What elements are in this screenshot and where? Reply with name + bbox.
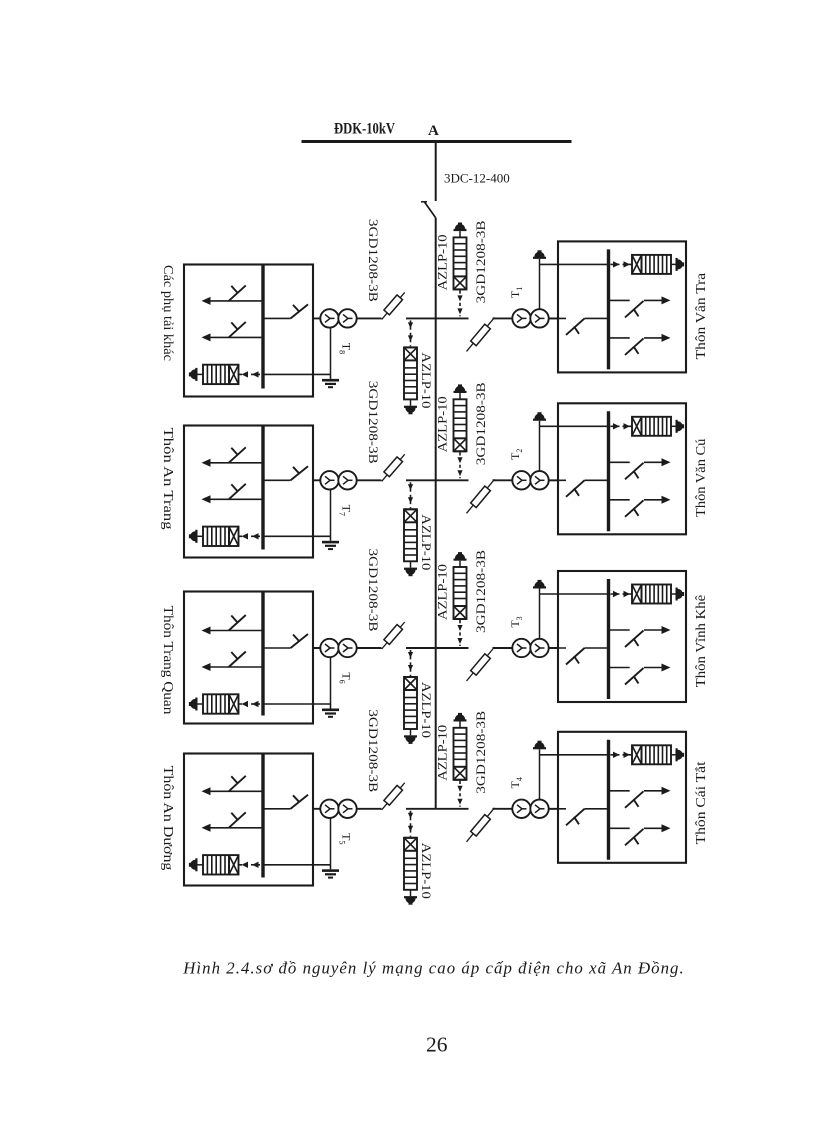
label 3GD1208-3B right 4 (473, 710, 488, 793)
feeder wire main segment (435, 218, 437, 809)
svg-text:Thôn Văn Cú: Thôn Văn Cú (693, 438, 708, 517)
right box 3 internal busbar (607, 579, 610, 699)
svg-text:AZLP-10: AZLP-10 (419, 682, 434, 738)
wire left branch 2 (313, 479, 436, 481)
ground riser of T3 (540, 589, 609, 649)
right box 2 arrester row (611, 417, 685, 436)
label DDK-10kV (334, 121, 396, 138)
fuse right 3 (3GD1208-3B) (467, 647, 495, 681)
transformer T3 (512, 639, 548, 657)
ground of T6 (322, 704, 339, 718)
transformer T7 (320, 471, 356, 489)
label AZLP-10 for FV1 (435, 234, 450, 290)
fuse left 3 (3GD1208-3B) (382, 622, 405, 649)
wire right branch 3 (436, 647, 558, 649)
label T6 (338, 672, 354, 683)
left box 3 arrester row (189, 694, 261, 713)
right box 1 (Thôn Vân Tra) (558, 241, 686, 372)
left box 2 feeder switch upper (202, 447, 264, 467)
left box 1 internal busbar (261, 265, 264, 389)
svg-text:AZLP-10: AZLP-10 (419, 843, 434, 899)
svg-text:3GD1208-3B: 3GD1208-3B (473, 550, 488, 633)
arrester FV4 (AZLP-10) above right branch 4 (454, 713, 467, 807)
label T1 (508, 287, 524, 298)
ground of T7 (322, 536, 339, 550)
right box 1 incoming switch (549, 318, 609, 335)
svg-text:AZLP-10: AZLP-10 (435, 564, 450, 620)
left box 1 (Các phụ tải khác) (184, 265, 313, 397)
fuse right 1 (3GD1208-3B) (467, 317, 495, 351)
left box 4 arrester row (189, 855, 261, 874)
busbar DDK-10kV (302, 140, 572, 143)
fuse right 4 (3GD1208-3B) (467, 808, 495, 842)
right box 2 feeder switch lower (609, 496, 671, 517)
label T7 (338, 505, 354, 516)
fuse left 1 (3GD1208-3B) (382, 292, 405, 319)
svg-text:3GD1208-3B: 3GD1208-3B (366, 381, 381, 464)
left box 3 feeder switch upper (202, 615, 264, 635)
label box name Thôn Văn Cú (693, 438, 708, 517)
arrester FH2 (AZLP-10) below left branch 2 (404, 482, 417, 576)
ground riser of T6 (263, 648, 331, 704)
left box 2 incoming switch (263, 466, 308, 480)
svg-text:Thôn Vĩnh Khê: Thôn Vĩnh Khê (693, 595, 708, 688)
label T4 (508, 777, 524, 788)
label box name Thôn Vân Tra (693, 273, 708, 360)
left box 1 incoming switch (263, 304, 308, 318)
svg-text:Hình 2.4.sơ đồ nguyên lý mạng: Hình 2.4.sơ đồ nguyên lý mạng cao áp cấp… (182, 958, 684, 977)
page number (426, 1033, 448, 1057)
fuse left 4 (3GD1208-3B) (382, 783, 405, 810)
ground riser of T2 (540, 421, 609, 481)
label AZLP-10 for FV4 (435, 725, 450, 781)
ground of T5 (322, 865, 339, 879)
right box 4 arrester row (611, 745, 685, 764)
svg-text:3GD1208-3B: 3GD1208-3B (366, 219, 381, 302)
svg-text:ĐDK-10kV: ĐDK-10kV (334, 121, 396, 138)
right box 1 internal busbar (607, 249, 610, 369)
svg-text:3GD1208-3B: 3GD1208-3B (366, 709, 381, 792)
svg-text:Thôn Trang Quan: Thôn Trang Quan (161, 606, 176, 715)
label 3GD1208-3B right 3 (473, 550, 488, 633)
transformer T1 (512, 309, 548, 327)
svg-text:Thôn An Dương: Thôn An Dương (161, 766, 176, 871)
right box 3 feeder switch upper (609, 626, 671, 647)
left box 4 (Thôn An Dương) (184, 754, 313, 886)
svg-text:3GD1208-3B: 3GD1208-3B (366, 549, 381, 632)
node A (428, 123, 439, 139)
wire left branch 3 (313, 647, 436, 649)
left box 3 feeder switch lower (202, 652, 264, 672)
right box 4 internal busbar (607, 740, 610, 860)
right box 3 (Thôn Vĩnh Khê) (558, 571, 686, 702)
ground riser of T7 (263, 480, 331, 536)
svg-text:3DC-12-400: 3DC-12-400 (444, 171, 510, 186)
arrester FV3 (AZLP-10) above right branch 3 (454, 552, 467, 646)
label AZLP-10 for FH1 (419, 352, 434, 408)
left box 4 feeder switch upper (202, 776, 264, 796)
right box 3 arrester row (611, 585, 685, 604)
left box 2 (Thôn An Trang) (184, 426, 313, 558)
label 3GD1208-3B right 2 (473, 382, 488, 465)
arrester FH4 (AZLP-10) below left branch 4 (404, 811, 417, 905)
feeder wire upper segment (435, 142, 437, 202)
left box 4 feeder switch lower (202, 812, 264, 832)
svg-text:Thôn An Trang: Thôn An Trang (161, 428, 176, 531)
label T2 (508, 449, 524, 460)
right box 1 feeder switch lower (609, 334, 671, 355)
label T3 (508, 616, 524, 627)
ground electrode of T4 (533, 741, 546, 750)
svg-text:AZLP-10: AZLP-10 (419, 352, 434, 408)
wire left branch 1 (313, 317, 436, 319)
label 3DC-12-400 (444, 171, 510, 186)
label box name Thôn An Dương (161, 766, 176, 871)
svg-text:AZLP-10: AZLP-10 (435, 725, 450, 781)
label AZLP-10 for FH4 (419, 843, 434, 899)
right box 1 feeder switch upper (609, 296, 671, 317)
left box 3 (Thôn Trang Quan) (184, 592, 313, 724)
label AZLP-10 for FH2 (419, 514, 434, 570)
arrester FH3 (AZLP-10) below left branch 3 (404, 650, 417, 744)
label box name Thôn Trang Quan (161, 606, 176, 715)
ground riser of T5 (263, 809, 331, 865)
label T5 (338, 833, 354, 844)
svg-text:26: 26 (426, 1033, 448, 1057)
svg-text:3GD1208-3B: 3GD1208-3B (473, 710, 488, 793)
transformer T2 (512, 471, 548, 489)
ground riser of T4 (540, 749, 609, 809)
svg-text:AZLP-10: AZLP-10 (435, 396, 450, 452)
right box 1 arrester row (611, 255, 685, 274)
transformer T4 (512, 800, 548, 818)
right box 4 feeder switch upper (609, 787, 671, 808)
right box 2 internal busbar (607, 411, 610, 531)
left box 1 feeder switch upper (202, 285, 264, 305)
svg-text:A: A (428, 123, 439, 139)
svg-text:3GD1208-3B: 3GD1208-3B (473, 382, 488, 465)
label AZLP-10 for FV2 (435, 396, 450, 452)
wire right branch 2 (436, 479, 558, 481)
right box 4 incoming switch (549, 809, 609, 826)
label 3GD1208-3B left 3 (366, 549, 381, 632)
label AZLP-10 for FH3 (419, 682, 434, 738)
fuse left 2 (3GD1208-3B) (382, 454, 405, 481)
left box 4 internal busbar (261, 754, 264, 878)
left box 1 arrester row (189, 365, 261, 384)
figure caption (182, 958, 684, 977)
left box 4 incoming switch (263, 795, 308, 809)
transformer T6 (320, 639, 356, 657)
arrester FV1 (AZLP-10) above right branch 1 (454, 223, 467, 317)
right box 4 (Thôn Cái Tắt) (558, 732, 686, 863)
right box 3 incoming switch (549, 648, 609, 665)
svg-text:Các phụ tải khác: Các phụ tải khác (161, 265, 176, 361)
wire right branch 1 (436, 317, 558, 319)
arrester FH1 (AZLP-10) below left branch 1 (404, 320, 417, 414)
right box 2 (Thôn Văn Cú) (558, 403, 686, 534)
arrester FV2 (AZLP-10) above right branch 2 (454, 384, 467, 478)
svg-text:Thôn Cái Tắt: Thôn Cái Tắt (693, 761, 708, 844)
left box 2 internal busbar (261, 426, 264, 550)
ground riser of T1 (540, 259, 609, 319)
ground electrode of T1 (533, 250, 546, 259)
label box name Thôn Cái Tắt (693, 761, 708, 844)
left box 3 incoming switch (263, 634, 308, 648)
right box 4 feeder switch lower (609, 824, 671, 845)
label box name Các phụ tải khác (161, 265, 176, 361)
left box 1 feeder switch lower (202, 322, 264, 342)
wire right branch 4 (436, 808, 558, 810)
label AZLP-10 for FV3 (435, 564, 450, 620)
label box name Thôn Vĩnh Khê (693, 595, 708, 688)
label 3GD1208-3B left 2 (366, 381, 381, 464)
svg-text:Thôn Vân Tra: Thôn Vân Tra (693, 273, 708, 360)
right box 2 incoming switch (549, 480, 609, 497)
ground of T8 (322, 374, 339, 388)
label 3GD1208-3B right 1 (473, 220, 488, 303)
right box 3 feeder switch lower (609, 664, 671, 685)
disconnector 3DC-12-400 (421, 202, 436, 218)
left box 2 arrester row (189, 527, 261, 546)
ground riser of T8 (263, 318, 331, 374)
label box name Thôn An Trang (161, 428, 176, 531)
svg-text:3GD1208-3B: 3GD1208-3B (473, 220, 488, 303)
right box 2 feeder switch upper (609, 458, 671, 479)
left box 3 internal busbar (261, 592, 264, 716)
wire left branch 4 (313, 808, 436, 810)
left box 2 feeder switch lower (202, 484, 264, 504)
transformer T8 (320, 309, 356, 327)
transformer T5 (320, 800, 356, 818)
label 3GD1208-3B left 1 (366, 219, 381, 302)
label 3GD1208-3B left 4 (366, 709, 381, 792)
ground electrode of T3 (533, 580, 546, 589)
ground electrode of T2 (533, 412, 546, 421)
svg-text:AZLP-10: AZLP-10 (419, 514, 434, 570)
svg-text:AZLP-10: AZLP-10 (435, 234, 450, 290)
fuse right 2 (3GD1208-3B) (467, 479, 495, 513)
label T8 (338, 343, 354, 354)
